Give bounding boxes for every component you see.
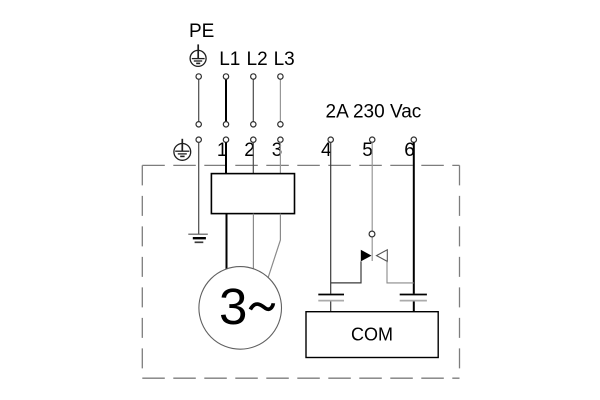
- wire L1 supply: [225, 79, 227, 121]
- enclosure earth symbol: [174, 139, 191, 161]
- connector plates right: [400, 295, 427, 301]
- enclosure dashed border left: [141, 165, 143, 378]
- wire terminal 2 to block: [252, 142, 254, 173]
- enclosure dashed border top: [142, 164, 459, 166]
- relay pivot circle: [369, 231, 375, 237]
- wire PE supply: [198, 79, 200, 121]
- wire terminal 5: [371, 142, 373, 261]
- terminal PE earth symbol: [190, 44, 206, 66]
- svg-text:COM: COM: [351, 325, 393, 345]
- svg-text:L1: L1: [219, 49, 240, 70]
- svg-text:5: 5: [362, 140, 373, 161]
- motor M1: [199, 267, 282, 350]
- wire L2 supply: [252, 79, 254, 121]
- socket pin circles row 3: [196, 137, 416, 142]
- wire PE to ground: [198, 142, 200, 234]
- ground: [188, 234, 208, 242]
- enclosure dashed border bottom: [142, 377, 459, 379]
- wire block to motor phase 1: [226, 214, 228, 269]
- svg-text:3: 3: [219, 278, 247, 335]
- relay contact K1 filled triangle: [361, 250, 372, 262]
- motor label tilde: [250, 303, 273, 309]
- COM box: [306, 312, 438, 358]
- wire terminal 1 to block: [225, 142, 227, 173]
- plug pin circles row 2: [196, 122, 283, 127]
- svg-text:L2: L2: [247, 49, 268, 70]
- terminal pin circles top row: [196, 74, 283, 79]
- wire terminal 3 to block: [279, 142, 281, 173]
- wire plate to COM left: [330, 302, 332, 312]
- wire block to motor phase 2: [252, 214, 254, 270]
- enclosure dashed border right: [459, 165, 461, 378]
- svg-text:PE: PE: [189, 21, 214, 42]
- wire relay left leg: [331, 261, 361, 283]
- svg-text:L3: L3: [274, 49, 295, 70]
- relay contact K1 open triangle: [377, 250, 388, 262]
- svg-text:2A 230 Vac: 2A 230 Vac: [326, 102, 422, 123]
- terminal block U1: [211, 174, 294, 214]
- wire relay right leg: [387, 261, 414, 283]
- wire plate to COM right: [413, 302, 415, 312]
- wire terminal 6: [413, 142, 415, 293]
- connector plates left: [318, 295, 344, 301]
- wire terminal 4: [330, 142, 332, 293]
- wire block to motor phase 3: [268, 214, 280, 278]
- wire L3 supply: [279, 79, 281, 121]
